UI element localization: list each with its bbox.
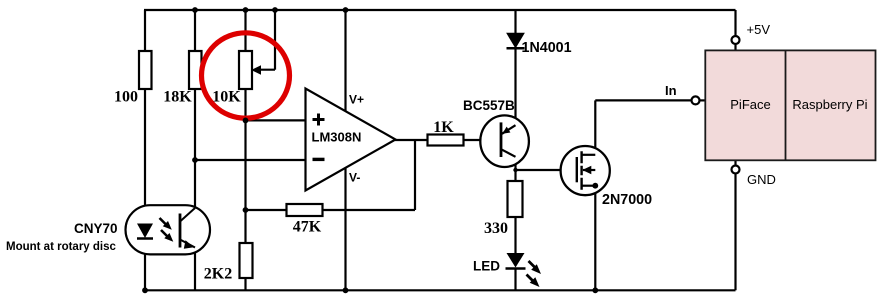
LED arrow 2 bbox=[527, 275, 536, 284]
wire GND drop to rail bbox=[734, 174, 736, 291]
svg-text:18K: 18K bbox=[163, 89, 192, 106]
svg-text:10K: 10K bbox=[212, 89, 241, 106]
wire CNY70 led cathode to rail bbox=[144, 239, 146, 290]
optocoupler CNY70 bbox=[126, 205, 211, 254]
2N7000 gate bar bbox=[576, 157, 578, 182]
wire 10K bottom to 2K2 bbox=[244, 89, 246, 243]
svg-text:2K2: 2K2 bbox=[204, 266, 232, 283]
opamp minus sign bbox=[313, 158, 325, 161]
wire noninverting input bbox=[246, 119, 307, 121]
wire pot wiper horizontal bbox=[258, 69, 275, 71]
2N7000 body line bbox=[583, 169, 595, 171]
wire 10K top bbox=[244, 10, 246, 51]
svg-text:PiFace: PiFace bbox=[730, 97, 770, 112]
wire 330 to LED bbox=[514, 217, 516, 253]
2N7000 source stub bbox=[582, 185, 596, 187]
svg-text:330: 330 bbox=[484, 220, 508, 237]
svg-text:1K: 1K bbox=[433, 119, 454, 136]
CNY70 led cathode bar bbox=[137, 237, 153, 240]
svg-text:Mount at rotary disc: Mount at rotary disc bbox=[6, 241, 117, 253]
wire drain vertical bbox=[594, 100, 596, 154]
opamp U1 LM308N bbox=[306, 89, 396, 191]
resistor 1K bbox=[428, 135, 464, 146]
2N7000 body arrow bbox=[582, 166, 591, 174]
annotation red circle bbox=[202, 33, 290, 118]
svg-text:V+: V+ bbox=[349, 93, 364, 107]
terminal GND bbox=[732, 166, 740, 174]
wire gate lead bbox=[516, 169, 577, 171]
resistor 18K bbox=[189, 51, 202, 89]
svg-text:GND: GND bbox=[747, 172, 776, 187]
block divider bbox=[785, 50, 787, 160]
svg-text:Raspberry Pi: Raspberry Pi bbox=[792, 97, 867, 112]
CNY70 emitter arrow bbox=[184, 240, 194, 249]
svg-text:100: 100 bbox=[114, 89, 138, 106]
wire R100 top bbox=[144, 10, 146, 51]
node 10K top bbox=[243, 7, 249, 13]
CNY70 light arrow 1 bbox=[160, 218, 168, 226]
svg-text:V-: V- bbox=[349, 171, 360, 185]
wire In horizontal bbox=[595, 99, 691, 101]
svg-text:2N7000: 2N7000 bbox=[602, 192, 652, 208]
node rail source bbox=[592, 287, 598, 293]
wire V+ drop bbox=[344, 10, 346, 112]
wire GND stub from box bbox=[734, 160, 736, 165]
2N7000 drain stub bbox=[582, 154, 596, 156]
BC557B emitter arrow bbox=[502, 127, 510, 134]
potentiometer 10K bbox=[239, 51, 252, 89]
wire 18K top bbox=[194, 10, 196, 51]
resistor 330 bbox=[508, 181, 523, 217]
resistor 2K2 bbox=[240, 243, 253, 278]
svg-text:LM308N: LM308N bbox=[312, 130, 362, 145]
wire feedback vertical bbox=[414, 140, 416, 210]
transistor Q2 2N7000 bbox=[561, 146, 610, 195]
node gate tap bbox=[513, 168, 517, 172]
resistor 47K bbox=[287, 204, 323, 216]
node minus input bbox=[192, 157, 198, 163]
wire 2K2 bottom bbox=[244, 278, 246, 290]
diode 1N4001 bbox=[507, 33, 524, 47]
svg-text:BC557B: BC557B bbox=[463, 98, 515, 113]
wire source to rail bbox=[594, 170, 596, 290]
svg-text:LED: LED bbox=[473, 259, 500, 274]
wire feedback horizontal bbox=[323, 209, 416, 211]
LED arrow 1 bbox=[529, 261, 538, 270]
wire inverting input bbox=[195, 159, 306, 161]
svg-text:47K: 47K bbox=[293, 219, 322, 236]
node V+ top bbox=[343, 7, 349, 13]
wire +5V drop bbox=[734, 10, 736, 37]
node wiper top bbox=[272, 7, 278, 13]
svg-text:In: In bbox=[665, 83, 677, 98]
2N7000 channel dashes bbox=[580, 151, 582, 190]
node plus input bbox=[243, 118, 249, 124]
terminal In bbox=[692, 96, 700, 104]
node rail left bbox=[142, 287, 148, 293]
LED D2 bbox=[507, 253, 525, 268]
wire diode cathode to emitter bbox=[514, 49, 516, 126]
BC557B base bar bbox=[500, 122, 503, 157]
2N7000 source dot bbox=[592, 183, 598, 189]
wire V- to ground rail bbox=[344, 168, 346, 291]
opamp plus sign bbox=[313, 114, 325, 126]
wire opamp output bbox=[395, 139, 428, 141]
wire 1K to base bbox=[464, 139, 502, 141]
node 18K top bbox=[192, 7, 198, 13]
wire In stub to PiFace bbox=[700, 99, 706, 101]
BC557B emitter bbox=[502, 125, 516, 134]
CNY70 collector bbox=[180, 208, 195, 222]
wire pot wiper vertical bbox=[274, 10, 276, 70]
wire LED cathode to rail bbox=[514, 269, 516, 291]
svg-text:CNY70: CNY70 bbox=[74, 221, 118, 236]
wire R100 bottom to CNY70 bbox=[144, 89, 146, 224]
transistor Q1 BC557B bbox=[480, 115, 529, 167]
pot wiper arrowhead bbox=[251, 65, 261, 75]
wire top rail bbox=[144, 9, 736, 11]
svg-text:+5V: +5V bbox=[747, 22, 771, 37]
CNY70 emitter bbox=[180, 240, 195, 248]
CNY70 base bar bbox=[179, 214, 182, 248]
node feedback A bbox=[243, 207, 249, 213]
resistor 100 bbox=[139, 51, 152, 89]
wire diode branch top bbox=[514, 10, 516, 34]
block PiFace / Raspberry Pi bbox=[705, 50, 875, 160]
CNY70 light arrow 2 bbox=[161, 230, 169, 238]
wire CNY70 emitter to rail bbox=[194, 248, 196, 291]
svg-text:1N4001: 1N4001 bbox=[522, 40, 572, 56]
wire collector to 330 bbox=[514, 157, 516, 182]
wire bottom rail bbox=[145, 289, 736, 291]
CNY70 led triangle bbox=[137, 224, 153, 239]
wire 47K to node A bbox=[246, 209, 287, 211]
node rail Vminus bbox=[343, 287, 349, 293]
wire 18K bottom to CNY70 collector bbox=[194, 89, 196, 208]
BC557B collector bbox=[501, 149, 516, 157]
wire +5V stub to box bbox=[734, 45, 736, 51]
terminal +5V bbox=[732, 36, 740, 44]
